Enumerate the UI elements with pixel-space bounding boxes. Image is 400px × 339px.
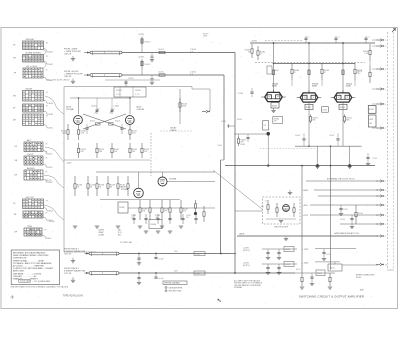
svg-text:C1024: C1024 <box>135 90 141 92</box>
svg-text:CHOP: CHOP <box>27 154 34 156</box>
svg-text:R1144: R1144 <box>358 213 363 215</box>
trimmer C1022 <box>111 107 113 114</box>
wire rail y199 lower stage <box>100 199 180 201</box>
svg-text:IMPORTANT: A VOLTAGE READIN: IMPORTANT: A VOLTAGE READINGS <box>13 251 46 254</box>
svg-text:+100V: +100V <box>302 205 308 207</box>
junction dots bottom rows <box>138 253 140 255</box>
delay bar bottom line 1 <box>89 252 119 255</box>
svg-text:5R: 5R <box>15 160 18 162</box>
svg-text:C1: C1 <box>368 37 370 39</box>
wire left box edge bottom <box>64 251 96 253</box>
components under y212 line <box>351 215 353 218</box>
svg-text:T1034: T1034 <box>119 207 124 209</box>
rotary switch wafer 4F (section) <box>23 104 44 112</box>
wire +100V row to right <box>315 261 340 263</box>
svg-text:2R: 2R <box>13 58 16 60</box>
coil L1096 between tubes <box>322 107 329 113</box>
tube V1014B triode <box>125 116 134 125</box>
long vertical output run x302 <box>301 166 303 273</box>
svg-text:C1: C1 <box>308 37 310 39</box>
wire V1084 grid column down to y165 <box>267 136 269 166</box>
small stubs above +325V bus <box>305 36 307 43</box>
wire rail y208 lower stage <box>128 207 215 209</box>
peaking coil cluster above V1084 <box>267 66 272 74</box>
svg-text:+125V: +125V <box>138 34 145 36</box>
bottom components under lower stage <box>139 200 141 208</box>
wavy connector wafers to box 2 <box>45 147 64 162</box>
svg-text:~ 9F (A): ~ 9F (A) <box>47 220 55 223</box>
series termination resistor line 2 <box>159 74 165 76</box>
svg-text:PARTIAL DIAGRAM: PARTIAL DIAGRAM <box>165 282 181 285</box>
svg-text:TRIGGER . . . . . . . . . . .: TRIGGER . . . . . . . . . . . AC <box>13 275 37 278</box>
svg-text:+125V: +125V <box>138 57 145 59</box>
grid network box left of V1084 <box>263 121 269 130</box>
svg-text:8: 8 <box>385 190 386 192</box>
svg-text:+ GATE: + GATE <box>301 189 308 192</box>
svg-text:7R: 7R <box>14 214 17 216</box>
svg-text:TO +225V (DCPL) R1152: TO +225V (DCPL) R1152 <box>47 80 71 82</box>
ground under source label 1 <box>72 258 74 261</box>
interconnecting plug dashed line outer <box>393 32 395 270</box>
svg-text:- - 1KC SQUARE WAVE: - - 1KC SQUARE WAVE <box>32 280 51 283</box>
svg-text:WERE OBTAINED UNDER CONDITION: WERE OBTAINED UNDER CONDITIONS <box>13 254 49 257</box>
ground under source label 2 <box>72 277 74 280</box>
svg-text:6JB6: 6JB6 <box>312 86 318 88</box>
arrow into delay line 2 <box>84 74 90 76</box>
svg-text:+325V: +325V <box>251 41 258 43</box>
ground symbols under lower stage <box>73 225 77 227</box>
trimmer cap at x156 line 1 <box>155 254 157 258</box>
svg-text:V1014A: V1014A <box>66 108 74 111</box>
trigger pickoff input wire <box>235 210 263 212</box>
svg-text:R1054: R1054 <box>47 167 54 169</box>
svg-text:SWITCHING CIRCUIT & OUTPUT AMP: SWITCHING CIRCUIT & OUTPUT AMPLIFIER <box>299 294 364 298</box>
svg-text:TIME BASE . . . . . . . . + 0: TIME BASE . . . . . . . . + 0.5V/CM <box>13 272 41 275</box>
boxed label right of V1084 <box>273 117 283 124</box>
svg-text:R1036: R1036 <box>151 224 157 226</box>
boxed resistor R1036 <box>149 220 162 229</box>
stub V1034B anode up <box>162 172 164 177</box>
boxed delay line termination <box>118 202 128 213</box>
wire interconnect arcs between wafers <box>44 50 47 55</box>
svg-text:470: 470 <box>274 121 277 123</box>
svg-text:C1083: C1083 <box>240 144 245 146</box>
svg-text:CRT 4R: CRT 4R <box>64 273 72 275</box>
svg-text:L1150: L1150 <box>285 249 290 251</box>
resistor on +225V line right <box>355 205 357 212</box>
extra component row lower stage <box>133 214 135 224</box>
svg-text:R1083: R1083 <box>272 106 277 108</box>
svg-text:3R: 3R <box>13 95 16 97</box>
svg-text:SEE PART DIAG: SEE PART DIAG <box>169 290 182 293</box>
svg-text:(B): (B) <box>118 235 121 237</box>
wire bottom row2 to bottom right cluster <box>230 272 295 274</box>
DCPL series box bottom right <box>334 262 336 264</box>
svg-text:+ 100V: + 100V <box>302 263 309 265</box>
svg-text:C1144: C1144 <box>340 219 345 221</box>
tube V1034A triode <box>134 188 144 198</box>
svg-text:C1059: C1059 <box>317 273 322 275</box>
dark junction blob <box>194 212 197 215</box>
orientation arrow top right <box>392 29 396 33</box>
svg-text:-150V: -150V <box>66 163 72 165</box>
bus wire y172 under center <box>96 171 215 173</box>
svg-text:CAT 4R: CAT 4R <box>64 75 72 78</box>
svg-text:NORM INVERT: NORM INVERT <box>26 52 42 54</box>
svg-text:CRT 2R: CRT 2R <box>64 253 72 255</box>
plate stopper resistors on tube columns <box>272 70 274 75</box>
cap to ground mid bottom line 1 <box>138 254 140 258</box>
screen resistors between tubes <box>291 63 293 69</box>
cathode drop wire V1094 <box>308 102 310 146</box>
cap to ground mid bottom line 2 <box>138 273 140 277</box>
svg-text:R1013: R1013 <box>145 42 152 44</box>
+125V decoupling on line 2 <box>141 68 143 75</box>
svg-text:GATE WAVEFORM AT PLUG: GATE WAVEFORM AT PLUG <box>334 232 359 235</box>
switching multivibrator enclosure box <box>64 86 192 88</box>
cathode cap C1094 <box>303 140 305 146</box>
svg-text:CABLE: CABLE <box>170 129 177 132</box>
svg-text:01: 01 <box>131 217 133 219</box>
interconnecting plug dashed line inner <box>387 32 389 270</box>
stub x349 to y166 with junction <box>348 146 350 165</box>
wire V1084 plate to bus <box>273 43 275 90</box>
svg-text:ALT: ALT <box>27 139 32 142</box>
svg-text:R1],: R1], <box>261 206 265 208</box>
svg-text:3: 3 <box>385 40 386 42</box>
svg-text:TRIG PICKOFF: TRIG PICKOFF <box>274 227 289 229</box>
diagonal wire to trigger pickoff <box>213 170 262 209</box>
svg-text:47: 47 <box>260 54 262 56</box>
rotary switch wafer 4R (section) <box>23 114 44 126</box>
wire plate bus V1014A <box>78 98 80 114</box>
svg-text:+0.5pF: +0.5pF <box>158 259 165 261</box>
wire y265 to plug <box>342 264 378 266</box>
svg-text:R1058: R1058 <box>47 211 54 213</box>
svg-text:5: 5 <box>385 196 386 198</box>
svg-text:001: 001 <box>186 217 189 219</box>
svg-text:EXTERNAL TRIG DCPL PLUG: EXTERNAL TRIG DCPL PLUG <box>327 178 355 181</box>
trimmer cap at x156 line 2 <box>155 273 157 277</box>
svg-text:AMPLITUDE:: AMPLITUDE: <box>13 270 25 273</box>
svg-text:47: 47 <box>294 72 296 74</box>
suppressor boxed label under V1094 <box>305 104 313 109</box>
plug column bottom bracket <box>388 269 394 271</box>
svg-text:V1034B: V1034B <box>169 179 177 181</box>
svg-text:SEL: SEL <box>312 119 315 121</box>
svg-text:(DCPL): (DCPL) <box>243 265 250 267</box>
junction dots on +325V bus <box>273 42 275 44</box>
lower bias resistors row <box>78 143 80 148</box>
grid resistor R1083 under y134 wire <box>238 134 240 136</box>
svg-text:CONTROL POS. SETTINGS NEED . C: CONTROL POS. SETTINGS NEED . CONTACT <box>13 267 54 270</box>
svg-text:L1154: L1154 <box>330 268 335 270</box>
wire +125V row to right <box>315 248 356 250</box>
svg-text:(DCPL): (DCPL) <box>243 250 250 252</box>
svg-text:7.5: 7.5 <box>385 264 387 266</box>
pin arrow at box right edge <box>192 88 210 90</box>
wire bottom row1 continues to plug <box>230 253 236 255</box>
svg-text:R1046: R1046 <box>47 103 54 105</box>
cap to ground on line 2 <box>151 75 153 78</box>
svg-text:4: 4 <box>385 69 386 71</box>
wire y181 under center <box>167 181 215 183</box>
junction dots multivibrator <box>78 97 79 98</box>
wire V1094 plate to bus <box>308 43 310 91</box>
svg-text:R1012: R1012 <box>90 121 95 123</box>
grid resistor R1011 left of box <box>67 124 69 130</box>
extra grounds lower stage <box>144 230 148 232</box>
grid feed wire y134 into V1084 <box>234 133 266 135</box>
arrow into delay line 1 <box>84 52 90 54</box>
wire delay line 2 output <box>122 74 224 76</box>
+125V decoupling on line 1 <box>141 46 143 53</box>
svg-text:C1152: C1152 <box>326 254 331 256</box>
solid screen bus segment <box>274 63 356 65</box>
cap to ground on line 1 <box>151 53 153 56</box>
svg-text:~ 8F (N): ~ 8F (N) <box>44 180 52 182</box>
wire V1104 plate to bus <box>342 43 344 91</box>
svg-text:SEE IMPORTANT NOTES ON SCHEMAT: SEE IMPORTANT NOTES ON SCHEMATIC DIAGRAM… <box>11 285 69 288</box>
mouse cursor arrow <box>218 299 220 301</box>
svg-text:R1050: R1050 <box>47 128 54 130</box>
delay line bar DL2 <box>90 74 122 77</box>
line to plug y221 <box>340 223 378 225</box>
svg-text:SW OUT: SW OUT <box>26 197 35 199</box>
svg-text:(A): (A) <box>118 229 121 232</box>
svg-text:L1096: L1096 <box>322 110 327 112</box>
vertical branch x180 in box <box>179 89 181 124</box>
cathode cap C1104 <box>337 140 339 146</box>
svg-text:3: 3 <box>385 215 386 217</box>
wire plate bus V1014B <box>129 98 131 114</box>
suppressor boxed label under V1084 <box>271 103 279 109</box>
long wire y146 under output tubes <box>295 145 362 147</box>
long wire y165.6 across lower amp <box>225 165 375 167</box>
output pentode V1104 <box>334 93 352 102</box>
cathode network V1014A <box>78 124 80 130</box>
svg-text:8: 8 <box>385 104 386 106</box>
svg-text:C1 J: C1 J <box>265 201 269 203</box>
mid right cap network y156-163 <box>366 157 369 159</box>
ground below source 1 <box>72 56 74 59</box>
dashed heater bus top <box>265 40 302 42</box>
svg-text:47: 47 <box>324 72 326 74</box>
grid cap C1083 under y134 wire <box>247 134 249 137</box>
second input resistor R1082 <box>257 46 259 51</box>
svg-text:C1104: C1104 <box>329 135 334 137</box>
svg-text:2Ω4: 2Ω4 <box>174 271 177 273</box>
svg-text:GATE AMPLIFIER: GATE AMPLIFIER <box>169 286 184 289</box>
svg-text:C1083: C1083 <box>238 93 243 95</box>
svg-text:C1041: C1041 <box>221 121 226 123</box>
long vertical output run x330 <box>330 146 332 270</box>
dashed screen bus <box>255 62 365 64</box>
bypass caps on +100V line <box>340 205 342 208</box>
svg-text:2Ω4: 2Ω4 <box>174 251 177 253</box>
svg-text:ADDED: ADDED <box>27 167 35 170</box>
cross-coupling network X wires <box>83 114 126 129</box>
svg-text:+100V: +100V <box>98 235 105 237</box>
wire top feed to trimmer box <box>125 80 127 87</box>
svg-text:+0.5pF: +0.5pF <box>158 278 165 280</box>
svg-text:L1084: L1084 <box>274 70 279 72</box>
rotary switch wafer 7R (section) <box>23 211 43 218</box>
svg-text:CAT 2R: CAT 2R <box>64 52 72 55</box>
ground below source 2 <box>72 79 74 82</box>
svg-text:SWEEP SIGNAL . . . . . . . .: SWEEP SIGNAL . . . . . . . . . . NONE <box>13 259 44 262</box>
cap on vertical x235 <box>230 125 235 127</box>
svg-text:C1: C1 <box>338 37 340 39</box>
svg-text:SEL: SEL <box>346 119 349 121</box>
arrow into bottom line 2 <box>85 272 90 274</box>
svg-text:1-7.3: 1-7.3 <box>135 94 139 96</box>
svg-text:R1014: R1014 <box>145 64 152 66</box>
cap network between rows right <box>323 249 325 252</box>
svg-text:R1040: R1040 <box>47 52 54 54</box>
svg-text:R1042: R1042 <box>237 119 242 121</box>
legend line 2 with circled plus <box>165 290 167 292</box>
svg-text:GATE: GATE <box>239 233 245 236</box>
wire vertical drop from delay line 2 <box>223 75 225 160</box>
right side resistor chain to plug <box>369 44 371 50</box>
svg-text:L1042: L1042 <box>217 145 222 147</box>
partial diagram legend oval <box>163 281 187 284</box>
tube V1034B triode <box>158 177 167 186</box>
svg-text:TYPE 4Ω PLUG-IN: TYPE 4Ω PLUG-IN <box>63 294 84 297</box>
svg-text:R1052: R1052 <box>47 154 54 156</box>
faint dashed wire y148.5 <box>260 148 315 150</box>
stub V1034A anode up <box>138 172 140 188</box>
plate supply bus +325V <box>250 42 375 44</box>
svg-text:R1048: R1048 <box>47 114 54 116</box>
svg-text:R1056: R1056 <box>47 182 54 184</box>
wire delay line 1 output <box>122 52 235 54</box>
parasitic suppressor dot <box>266 132 270 136</box>
output pentode V1094 <box>300 93 318 102</box>
trimmer C1021 <box>96 107 98 114</box>
gate line ground stub <box>285 236 287 238</box>
delay line bar DL1 <box>90 51 122 54</box>
svg-text:4R: 4R <box>13 119 16 121</box>
svg-text:C8: C8 <box>264 125 266 127</box>
delay cable dashed run <box>150 133 152 176</box>
cathode resistor R1094 <box>310 114 312 116</box>
svg-text:R1099: R1099 <box>369 109 374 111</box>
svg-text:PLUG: PLUG <box>356 277 362 279</box>
stub x317 to y166 with junction <box>316 146 318 165</box>
svg-text:100: 100 <box>155 217 158 219</box>
trigger pickoff contents <box>267 200 269 205</box>
svg-text:C1023: C1023 <box>116 90 122 92</box>
svg-text:6JB6: 6JB6 <box>346 86 352 88</box>
svg-text:6: 6 <box>385 46 386 48</box>
svg-text:C1022: C1022 <box>114 106 120 108</box>
svg-text:2: 2 <box>385 128 386 130</box>
svg-text:+225V: +225V <box>302 215 308 217</box>
svg-text:C1025: C1025 <box>128 78 134 80</box>
wavy connector wafers to box 3 <box>44 175 64 188</box>
svg-text:R1093: R1093 <box>306 107 311 109</box>
wire trimmer feeds from plate bus <box>96 98 98 107</box>
inner trimmer box C1023/C1024 <box>114 87 146 97</box>
svg-text:R1 W: R1 W <box>296 269 301 271</box>
boxed component R1099 right <box>368 106 376 114</box>
ground stub on trig line <box>289 190 291 192</box>
svg-text:NOMINAL: NOMINAL <box>234 286 242 289</box>
svg-text:C1142: C1142 <box>343 209 348 211</box>
svg-text:6: 6 <box>385 236 386 238</box>
bottom long wire 1 <box>119 253 230 255</box>
svg-text:R1013: R1013 <box>115 121 120 123</box>
svg-text:V1014B: V1014B <box>137 109 145 111</box>
svg-text:SW1040: SW1040 <box>26 39 35 41</box>
svg-text:C1094: C1094 <box>295 135 300 137</box>
svg-text:R1062: R1062 <box>46 238 53 240</box>
input network left of V1084 <box>251 44 253 49</box>
svg-text:MODE: MODE <box>26 88 33 90</box>
svg-text:1-7.3: 1-7.3 <box>116 94 120 96</box>
wavy connector wafers to notes 4 <box>44 205 64 220</box>
svg-text:L1015: L1015 <box>158 72 164 74</box>
svg-text:TRIG: TRIG <box>27 226 33 228</box>
voltage readings notes box <box>11 250 59 285</box>
output pentode V1084 <box>265 92 283 101</box>
components row under lower tubes <box>74 176 76 184</box>
tube V1014A triode <box>74 116 83 125</box>
delay bar bottom line 2 <box>89 272 119 275</box>
svg-text:3: 3 <box>385 224 386 226</box>
svg-text:5: 5 <box>385 205 386 207</box>
plug pins lower group <box>376 180 380 182</box>
wire vertical drop from delay line 1 <box>234 53 236 274</box>
suppressor boxed label under V1104 <box>339 104 347 109</box>
svg-text:L1014: L1014 <box>158 49 164 51</box>
svg-text:R1103: R1103 <box>340 107 345 109</box>
svg-text:VOLTAGES + AND F R TO GND MEAS: VOLTAGES + AND F R TO GND MEASURED <box>13 262 52 265</box>
bottom long wire 2 <box>119 272 230 274</box>
cathode drop wire V1104 <box>342 103 344 147</box>
svg-text:C1021: C1021 <box>91 106 97 108</box>
wavy connector wafers to box 1 <box>45 96 64 114</box>
svg-text:A PLUG-IN . . . . . . . . . .: A PLUG-IN . . . . . . . . . . . REMOVED <box>13 265 45 268</box>
registration cross mark <box>10 295 14 299</box>
arrow into bottom line 1 <box>85 253 90 255</box>
gate output long wire y236 <box>237 235 378 237</box>
svg-text:6.8: 6.8 <box>358 73 360 75</box>
svg-text:~ R.: ~ R. <box>44 152 48 154</box>
svg-text:DC SHIFT BAL: DC SHIFT BAL <box>120 241 132 244</box>
wire -150V rail under multivibrator <box>64 159 150 161</box>
svg-text:R1042: R1042 <box>47 64 54 66</box>
volts calib oval in notes box <box>19 279 31 282</box>
series termination resistor line 1 <box>159 51 165 53</box>
svg-text:+ 125V: + 125V <box>302 249 309 251</box>
legend line 1 with circled plus <box>165 286 167 288</box>
svg-text:5: 5 <box>385 89 386 91</box>
bottom right output network <box>295 272 335 274</box>
svg-text:L1151: L1151 <box>285 264 290 266</box>
svg-text:C1040: C1040 <box>195 253 200 255</box>
svg-text:6JB6: 6JB6 <box>272 86 278 88</box>
cathode resistor R1104 <box>344 114 346 116</box>
cathode network V1014B <box>129 124 131 130</box>
plug pins upper group <box>376 39 380 41</box>
svg-text:C1109: C1109 <box>372 158 377 160</box>
trigger pickoff dashed enclosure <box>263 197 301 224</box>
